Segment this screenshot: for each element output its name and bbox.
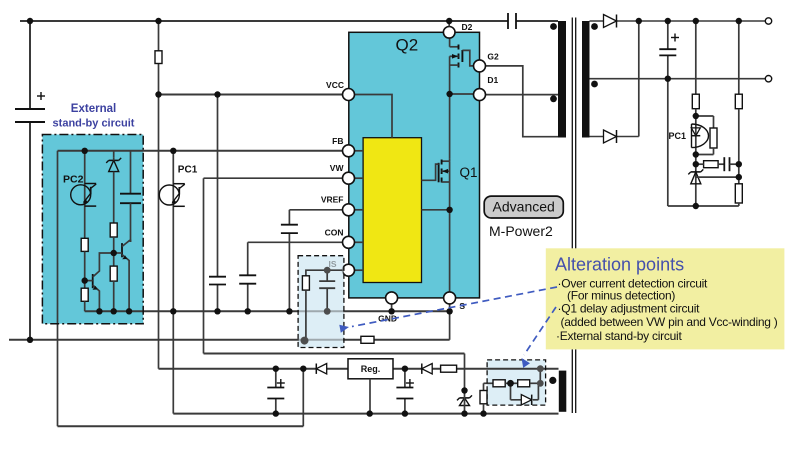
svg-text:Reg.: Reg. (361, 364, 381, 374)
svg-text:D1: D1 (487, 75, 498, 85)
svg-text:G2: G2 (487, 52, 499, 62)
svg-text:VREF: VREF (321, 195, 344, 205)
svg-text:FB: FB (332, 136, 343, 146)
svg-text:VW: VW (330, 163, 345, 173)
svg-text:Alteration points: Alteration points (555, 255, 684, 275)
svg-text:PC1: PC1 (669, 131, 687, 141)
svg-text:M-Power2: M-Power2 (489, 223, 553, 239)
svg-text:VCC: VCC (326, 80, 344, 90)
svg-text:PC1: PC1 (178, 164, 198, 175)
svg-text:stand-by circuit: stand-by circuit (53, 118, 135, 130)
svg-text:(added between VW pin and Vcc-: (added between VW pin and Vcc-winding ) (561, 315, 778, 329)
svg-text:Q2: Q2 (396, 36, 419, 55)
svg-text:CON: CON (325, 228, 344, 238)
svg-text:Q1: Q1 (460, 165, 478, 180)
svg-text:·Q1 delay adjustment circuit: ·Q1 delay adjustment circuit (558, 302, 701, 316)
svg-text:PC2: PC2 (63, 174, 84, 186)
svg-text:External: External (71, 103, 116, 115)
svg-text:Advanced: Advanced (493, 199, 555, 215)
svg-text:·External stand-by circuit: ·External stand-by circuit (556, 329, 682, 343)
svg-text:D2: D2 (462, 22, 473, 32)
svg-text:(For minus detection): (For minus detection) (567, 289, 675, 303)
